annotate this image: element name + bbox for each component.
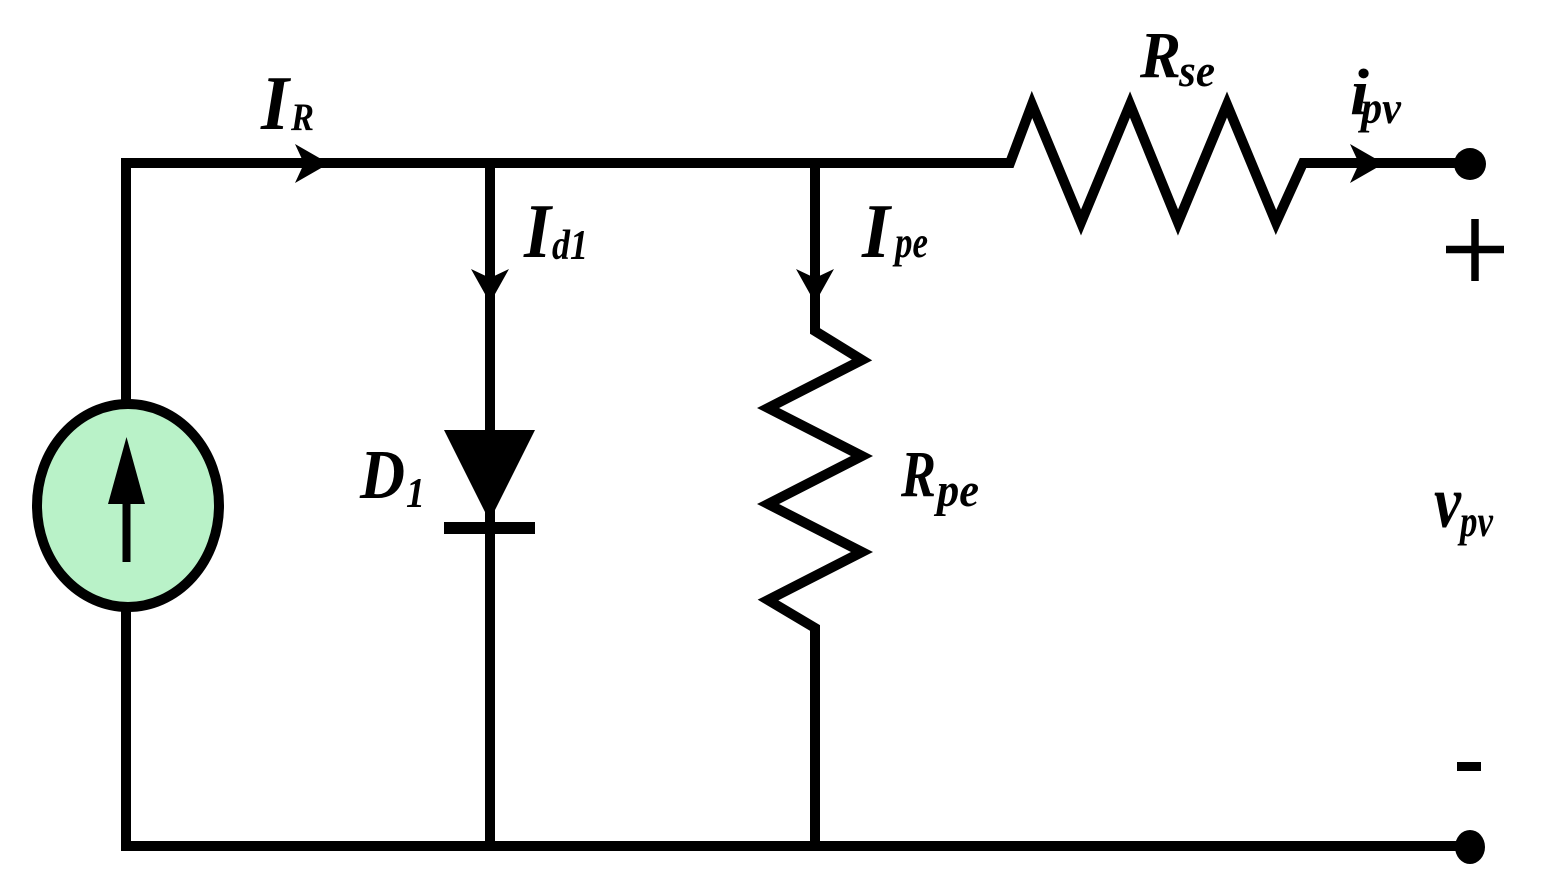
svg-text:pe: pe — [892, 218, 928, 267]
svg-text:I: I — [260, 60, 292, 146]
svg-text:1: 1 — [406, 471, 425, 517]
svg-text:d1: d1 — [552, 223, 588, 269]
svg-text:I: I — [523, 188, 554, 274]
svg-text:I: I — [861, 188, 893, 274]
svg-text:se: se — [1178, 45, 1215, 96]
svg-text:pe: pe — [933, 464, 979, 517]
svg-text:R: R — [290, 96, 314, 139]
svg-text:R: R — [900, 438, 936, 511]
svg-text:pv: pv — [1357, 82, 1401, 133]
svg-text:D: D — [359, 437, 405, 514]
svg-text:pv: pv — [1457, 497, 1494, 546]
svg-text:R: R — [1139, 19, 1181, 92]
svg-text:v: v — [1434, 462, 1462, 544]
